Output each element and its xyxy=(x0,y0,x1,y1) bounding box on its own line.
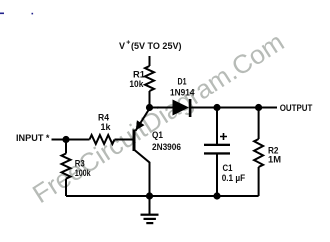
svg-text:10k: 10k xyxy=(129,79,144,89)
wire R4 to base xyxy=(115,139,133,141)
svg-text:D1: D1 xyxy=(178,77,187,87)
resistor R4 xyxy=(90,135,115,144)
svg-text:C1: C1 xyxy=(223,163,233,173)
input wire xyxy=(52,139,90,141)
watermark FreeCircuitDiagram.Com xyxy=(27,26,289,209)
wire R2 bottom lead xyxy=(258,167,260,196)
Q1 emitter arrow (PNP) xyxy=(136,120,145,130)
svg-text:0.1 µF: 0.1 µF xyxy=(222,173,246,183)
transistor Q1 base bar xyxy=(133,130,136,152)
wire R1 to node xyxy=(149,91,151,108)
svg-text:R3: R3 xyxy=(75,158,85,168)
node ground xyxy=(146,192,153,199)
resistor R2 xyxy=(254,139,263,167)
bottom wire xyxy=(66,195,259,197)
wire node to diode xyxy=(150,107,173,109)
diode D1 xyxy=(173,100,190,116)
wire R2 top lead xyxy=(258,108,260,140)
svg-text:1k: 1k xyxy=(101,122,112,132)
node R2 top xyxy=(255,104,262,111)
diode D1 cathode bar xyxy=(189,99,192,117)
capacitor C1 bottom plate xyxy=(204,152,230,154)
svg-text:INPUT *: INPUT * xyxy=(16,133,50,143)
svg-text:1M: 1M xyxy=(268,155,281,165)
Q1 collector wire xyxy=(135,150,150,196)
svg-text:(5V TO 25V): (5V TO 25V) xyxy=(131,41,182,51)
stray blue dash top-left xyxy=(0,13,4,15)
ground stem xyxy=(149,196,151,214)
svg-text:1N914: 1N914 xyxy=(170,88,195,98)
capacitor C1 plus sign xyxy=(220,133,227,140)
svg-text:2N3906: 2N3906 xyxy=(152,142,181,152)
ground bar 3 xyxy=(146,222,153,224)
node input/R3 xyxy=(62,136,69,143)
svg-text:R1: R1 xyxy=(133,69,145,79)
wire C1 bottom lead xyxy=(216,155,218,197)
wire C1 top lead xyxy=(216,108,218,145)
node junction R1/D1/Q1 emitter xyxy=(146,104,153,111)
Q1 emitter wire xyxy=(136,109,150,131)
svg-text:100k: 100k xyxy=(75,168,92,178)
ground bar 2 xyxy=(144,218,156,220)
wire diode to output xyxy=(191,107,277,109)
stray blue dot xyxy=(32,13,34,15)
node C1 top xyxy=(213,104,220,111)
svg-text:V: V xyxy=(119,41,125,51)
ground bar 1 xyxy=(141,214,159,216)
svg-text:Q1: Q1 xyxy=(152,130,163,140)
resistor R1 xyxy=(145,66,154,91)
node C1 bottom xyxy=(213,192,220,199)
resistor R3 xyxy=(62,140,71,197)
svg-text:OUTPUT: OUTPUT xyxy=(280,103,313,113)
svg-text:R4: R4 xyxy=(98,112,109,122)
svg-text:+: + xyxy=(126,40,130,47)
capacitor C1 top plate xyxy=(204,144,230,146)
wire V+ down to R1 xyxy=(149,56,151,66)
